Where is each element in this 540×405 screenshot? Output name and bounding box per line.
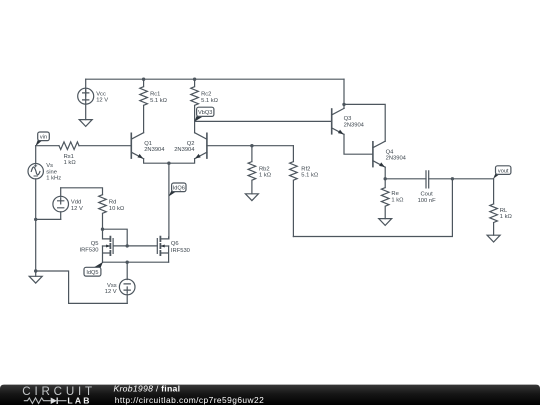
junction Q4 emitter node <box>384 177 387 180</box>
svg-text:2N3904: 2N3904 <box>344 122 365 128</box>
transistor Q2 <box>195 133 207 159</box>
node flag vin <box>35 132 49 146</box>
label Rd 10 kOhm <box>109 200 125 212</box>
voltage source Vs sine <box>28 146 43 271</box>
svg-text:Vs: Vs <box>46 163 53 169</box>
svg-text:Rc1: Rc1 <box>150 92 160 98</box>
svg-text:Rb2: Rb2 <box>259 166 270 172</box>
junction top rail Rc1 <box>142 78 145 81</box>
ground below Re <box>379 219 392 226</box>
junction Vdd return on Vs wire <box>34 218 37 221</box>
svg-text:Vdd: Vdd <box>71 200 81 206</box>
node flag vout <box>493 166 511 179</box>
label Q2 2N3904 <box>174 141 195 153</box>
wire Rd bottom to gate tie <box>103 229 128 246</box>
wire Vss plus return to ground net <box>36 271 128 303</box>
svg-text:2N3904: 2N3904 <box>386 156 407 162</box>
svg-text:Re: Re <box>391 191 398 197</box>
label Rs1 1 kOhm <box>64 154 77 166</box>
label Vcc 12 V <box>96 91 108 103</box>
svg-text:12 V: 12 V <box>96 98 108 104</box>
label Vs sine 1 kHz <box>46 163 61 182</box>
svg-text:vin: vin <box>40 135 47 141</box>
svg-text:Q3: Q3 <box>344 116 352 122</box>
junction Q3 collector node <box>342 103 345 106</box>
svg-text:2N3904: 2N3904 <box>144 147 165 153</box>
voltage source Vdd <box>53 188 69 220</box>
node flag IdQ6 <box>169 183 186 197</box>
label Q6 IRF530 <box>171 241 190 254</box>
wire emitter rail Q1 Q2 <box>144 159 195 164</box>
wire tail current to Q6 drain <box>168 163 170 239</box>
svg-text:1 kΩ: 1 kΩ <box>259 173 272 179</box>
transistor Q1 <box>131 133 143 159</box>
wire vin to Rs1 <box>36 145 59 147</box>
resistor Rc2 <box>191 79 199 121</box>
svg-text:Q6: Q6 <box>171 241 179 247</box>
wire Q3 collector node to Q4 collector <box>344 104 385 141</box>
svg-text:http://circuitlab.com/cp7re59g: http://circuitlab.com/cp7re59g6uw22 <box>115 395 264 405</box>
label Cout 100 nF <box>418 192 437 204</box>
ground below Rb2 <box>245 194 258 201</box>
wire Vdd plus to Rd <box>61 188 103 195</box>
node flag VbQ3 <box>194 107 214 122</box>
junction top rail Rc2 <box>193 78 196 81</box>
node flag IdQ5 <box>84 262 103 276</box>
wire VbQ3 node to Q3 base <box>195 120 332 122</box>
wire Rs1 to Q1 base <box>79 145 131 147</box>
ground below Vcc <box>79 120 92 127</box>
wire Q4 emitter to output node <box>384 167 386 179</box>
wire Q2 base to Rb2 Rf2 <box>207 145 294 147</box>
label Q1 2N3904 <box>144 141 165 153</box>
svg-text:Vcc: Vcc <box>96 91 106 97</box>
wire Q4 emitter node to Cout <box>385 178 426 180</box>
svg-text:Rs1: Rs1 <box>64 154 74 160</box>
wire feedback Rf2 to output node <box>293 179 452 237</box>
voltage source Vcc <box>78 79 94 104</box>
transistor Q3 <box>332 108 344 134</box>
ground left main <box>29 276 42 283</box>
transistor Q6 <box>157 237 168 263</box>
svg-text:10 kΩ: 10 kΩ <box>109 206 125 212</box>
wire top rail down to Q3 collector <box>343 79 345 108</box>
wire vout to RL <box>493 179 495 204</box>
svg-text:100 nF: 100 nF <box>418 198 437 204</box>
svg-text:5.1 kΩ: 5.1 kΩ <box>201 98 219 104</box>
label Re 1 kOhm <box>391 191 404 203</box>
ground below RL <box>487 235 500 242</box>
junction gate tie <box>126 244 129 247</box>
svg-text:LAB: LAB <box>67 395 91 405</box>
resistor Rf2 <box>290 146 298 237</box>
svg-text:Rc2: Rc2 <box>201 92 211 98</box>
junction Rb2 <box>250 144 253 147</box>
svg-text:IRF530: IRF530 <box>79 247 98 253</box>
capacitor Cout <box>426 171 429 188</box>
resistor Rc1 <box>140 79 148 133</box>
svg-text:Q5: Q5 <box>91 241 99 247</box>
svg-text:1 kΩ: 1 kΩ <box>500 214 513 220</box>
junction feedback output node <box>451 177 454 180</box>
svg-text:Rd: Rd <box>109 200 116 206</box>
junction Vss top <box>126 261 129 264</box>
resistor Rb2 <box>248 146 256 194</box>
wire Q3 emitter to Q4 base <box>344 134 373 154</box>
svg-text:1 kHz: 1 kHz <box>46 176 61 182</box>
svg-text:IdQ6: IdQ6 <box>173 186 185 192</box>
svg-text:5.1 kΩ: 5.1 kΩ <box>150 98 168 104</box>
voltage source Vss <box>119 262 135 303</box>
wire Q2 collector <box>194 121 196 132</box>
logo resistor zigzag <box>24 398 51 404</box>
transistor Q5 <box>103 229 114 262</box>
svg-text:VbQ3: VbQ3 <box>198 110 212 116</box>
label Rb2 1 kOhm <box>259 166 272 178</box>
logo diode <box>51 398 57 405</box>
resistor Re <box>381 179 389 219</box>
wire gate tie Q5 Q6 <box>113 245 157 247</box>
svg-text:Q4: Q4 <box>386 149 395 155</box>
resistor Rs1 <box>59 142 79 150</box>
svg-text:12 V: 12 V <box>71 206 83 212</box>
svg-text:1 kΩ: 1 kΩ <box>391 198 404 204</box>
label Rc1 5.1 kOhm <box>150 92 168 104</box>
wire Vcc to ground <box>85 104 87 120</box>
junction emitter rail <box>167 162 170 165</box>
junction ground node <box>34 269 37 272</box>
svg-text:Krob1998 / final: Krob1998 / final <box>114 383 181 393</box>
wire Cout to vout <box>429 178 494 180</box>
wire source rail Q5 Q6 <box>103 261 169 263</box>
svg-text:IdQ5: IdQ5 <box>86 270 98 276</box>
svg-text:2N3904: 2N3904 <box>174 147 195 153</box>
svg-text:IRF530: IRF530 <box>171 248 190 254</box>
svg-text:RL: RL <box>500 208 508 214</box>
svg-text:vout: vout <box>498 168 509 174</box>
svg-text:Rf2: Rf2 <box>301 166 310 172</box>
svg-text:1 kΩ: 1 kΩ <box>64 160 77 166</box>
transistor Q4 <box>373 141 385 167</box>
resistor Rd <box>99 195 107 230</box>
label Q5 IRF530 <box>79 241 98 253</box>
label RL 1 kOhm <box>500 208 513 220</box>
label Rf2 5.1 kOhm <box>301 166 319 178</box>
resistor RL <box>490 204 498 235</box>
svg-text:5.1 kΩ: 5.1 kΩ <box>301 173 319 179</box>
svg-text:12 V: 12 V <box>105 289 117 295</box>
junction Rd bottom Q5 drain <box>101 228 104 231</box>
wire Vdd minus to Vs net <box>36 218 61 220</box>
label Vss 12 V <box>105 283 117 295</box>
svg-text:sine: sine <box>46 169 57 175</box>
svg-text:Cout: Cout <box>420 192 433 198</box>
wire top supply rail <box>86 78 344 80</box>
label Q3 2N3904 <box>344 116 365 128</box>
label Q4 2N3904 <box>386 149 407 161</box>
label Rc2 5.1 kOhm <box>201 92 219 104</box>
wire ground stem left <box>35 271 37 276</box>
label Vdd 12 V <box>71 200 83 212</box>
